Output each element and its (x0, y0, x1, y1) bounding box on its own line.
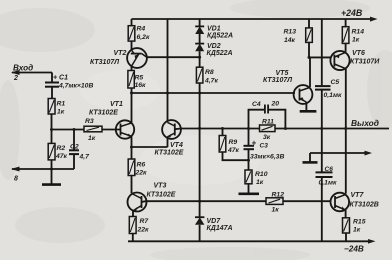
wire input down to C1 (51, 73, 53, 82)
wire VD1 to VD2 (199, 34, 201, 44)
wire y201 bus right of R12 to VT7 base (283, 200, 331, 202)
bottom rail arrowhead (368, 239, 376, 244)
resistor R9 (219, 136, 226, 153)
svg-text:R12: R12 (272, 192, 285, 199)
wire VT6 collector down to VT7 collector (345, 69, 347, 194)
node junction at 131,93 (130, 92, 133, 95)
wire gnd stem lower output (309, 153, 311, 162)
svg-text:47к: 47к (55, 153, 68, 160)
resistor R12 (horizontal, in series) (266, 198, 283, 205)
svg-text:КД522А: КД522А (207, 33, 233, 40)
wire VT4 emitter down (167, 137, 169, 147)
node junction at 199.6,93 (198, 92, 201, 95)
svg-text:С3: С3 (260, 143, 269, 150)
node junction R9/C3 (247, 159, 250, 162)
resistor R7 (129, 217, 136, 234)
svg-text:VD2: VD2 (207, 43, 221, 50)
wire C5 column from rail (321, 19, 323, 85)
wire node to R3 (52, 129, 85, 131)
resistor R14 (342, 27, 349, 44)
node junction base VT2 at diode column (198, 56, 201, 59)
svg-text:R6: R6 (137, 162, 146, 169)
wire VT1 collector up (131, 93, 133, 123)
svg-text:VT3: VT3 (154, 183, 167, 190)
svg-text:VT4: VT4 (170, 142, 183, 149)
svg-text:4,7к: 4,7к (204, 78, 218, 85)
wire R4 to VT2 (131, 41, 133, 50)
node junction x199.6/y201.2 (198, 200, 201, 203)
svg-text:КД522А: КД522А (207, 50, 233, 57)
svg-text:R10: R10 (255, 171, 268, 178)
transistor VT2 (PNP KT3107L) (127, 48, 147, 68)
svg-text:14к: 14к (284, 37, 296, 44)
node junction R13/VT5 collector (308, 56, 311, 59)
diode VD1 (KD522A) (195, 25, 204, 27)
node junction R9 at bus (221, 127, 224, 130)
svg-text:16к: 16к (135, 82, 147, 89)
resistor R1 (48, 99, 55, 115)
capacitor C2 (69, 149, 79, 151)
svg-text:КТ3107Л: КТ3107Л (90, 59, 119, 66)
svg-text:33мк×6,3В: 33мк×6,3В (250, 154, 284, 161)
wire C1 to R1 (51, 88, 53, 99)
capacitor C4 (264, 105, 266, 114)
ground bar VT5 (300, 110, 317, 113)
capacitor C5 (315, 85, 331, 87)
transistor VT1 (NPN KT3102E) (116, 120, 134, 138)
resistor R8 (196, 67, 203, 83)
wire VT3 base to right bus (142, 200, 147, 203)
svg-text:R15: R15 (353, 219, 366, 226)
wire R14 to VT6 emitter (345, 43, 347, 51)
node junction gnd stem (50, 168, 53, 171)
wire emitter bus VT1-VT4 (132, 146, 168, 148)
wire R10 to its ground (248, 184, 250, 193)
resistor R5 (128, 71, 134, 89)
svg-text:R8: R8 (205, 69, 214, 76)
svg-text:0,1мк: 0,1мк (324, 92, 342, 99)
wire output lower arrow line (310, 152, 366, 154)
svg-text:3к: 3к (263, 134, 271, 141)
wire gnd line (node 8) (12, 168, 74, 170)
transistor VT4 (NPN KT3102E) (162, 120, 181, 139)
svg-text:КТ3102Е: КТ3102Е (89, 110, 118, 117)
wire rail to R4 (131, 19, 133, 26)
svg-text:VD1: VD1 (207, 26, 221, 33)
svg-text:1к: 1к (272, 207, 280, 214)
node junction x199.6/y128.4 (198, 127, 201, 130)
svg-text:КТ3102Е: КТ3102Е (147, 192, 176, 199)
svg-text:R1: R1 (57, 101, 66, 108)
svg-text:1к: 1к (88, 135, 96, 142)
capacitor C6 (316, 171, 333, 173)
svg-text:R9: R9 (229, 139, 238, 146)
wire C5 to output bus (321, 90, 323, 128)
ground bar left (42, 183, 61, 186)
node junction C2 branch (73, 128, 76, 131)
svg-text:VT5: VT5 (276, 70, 289, 77)
wire R1 to node (51, 114, 53, 130)
node junction R1/R2 (50, 128, 53, 131)
svg-text:R7: R7 (140, 218, 150, 225)
wire R6 to VT3 collector (131, 176, 133, 194)
capacitor C1 (polarized) (45, 82, 59, 84)
resistor R2 (48, 143, 55, 160)
wire VT7 emitter to R15 (345, 210, 347, 218)
capacitor C3 (polarized 33mk) (248, 129, 250, 146)
node junction C5 column at bus (320, 127, 323, 130)
wire output bus y128.4 left part (175, 128, 260, 131)
svg-text:1к: 1к (353, 227, 361, 234)
wire R3 to VT1 base (102, 129, 121, 131)
wire R15 to bottom rail (345, 233, 347, 241)
svg-text:С4: С4 (252, 101, 261, 108)
svg-text:R14: R14 (352, 29, 365, 36)
svg-text:КД147А: КД147А (207, 225, 233, 232)
wire VT3 base bus y201 left of R12 (147, 200, 266, 202)
node junction emitters/R6 (130, 146, 133, 149)
wire node down to R2 (51, 130, 53, 144)
wire bottom -24V rail (128, 240, 370, 242)
svg-text:КТ3102Е: КТ3102Е (155, 150, 184, 157)
resistor R13 (306, 28, 313, 43)
resistor R15 (343, 218, 350, 233)
svg-text:22к: 22к (137, 227, 150, 234)
svg-text:VT7: VT7 (351, 192, 365, 199)
svg-text:1к: 1к (256, 179, 264, 186)
node junction at 167.5,93 (166, 92, 169, 95)
wire C4 branch right-down (268, 110, 285, 129)
node junction C4 rejoin (284, 127, 287, 130)
transistor VT6 (PNP KT3107I) (330, 51, 349, 70)
wire R13 stem from rail (308, 19, 310, 28)
diode VD2 (KD522A) (195, 43, 204, 45)
svg-text:4,7мк×10В: 4,7мк×10В (58, 83, 93, 90)
svg-text:20: 20 (271, 101, 280, 108)
node 8 arrowhead (11, 167, 20, 172)
transistor VT3 (NPN KT3102E) (128, 193, 147, 212)
resistor R10 (245, 170, 252, 184)
svg-text:8: 8 (14, 176, 18, 183)
svg-text:0,1мк: 0,1мк (319, 180, 337, 187)
svg-text:R3: R3 (85, 118, 94, 125)
wire VT1 emitter down (131, 136, 133, 147)
wire node to R6 (131, 147, 133, 159)
wire input horizontal (node 2) (12, 72, 52, 74)
svg-text:С2: С2 (70, 144, 79, 151)
ground bar R10 (239, 193, 260, 196)
wire VT2 emitter down to R5 (131, 66, 133, 71)
wire R8 down through junctions to VD7 (199, 83, 201, 217)
ground bar lower output (303, 161, 318, 164)
wire R2 to gnd line (51, 160, 53, 169)
wire VT5 collector up (309, 57, 311, 87)
resistor R4 (128, 26, 135, 41)
svg-text:КТ3107И: КТ3107И (350, 59, 380, 66)
svg-text:2: 2 (13, 75, 18, 82)
diode VD7 (KD147A) (195, 216, 204, 218)
svg-text:−24В: −24В (344, 245, 364, 254)
wire top +24V rail (132, 18, 373, 20)
wire VT2 base to VD2/R8 column (147, 56, 200, 58)
svg-text:47к: 47к (227, 147, 240, 154)
resistor R3 (horizontal) (84, 126, 102, 132)
wire R9 stem from bus (222, 129, 224, 136)
wire R9 to C3 column (223, 152, 249, 160)
svg-text:R13: R13 (284, 29, 297, 36)
resistor R11 (horizontal, in series) (260, 125, 276, 132)
svg-text:1к: 1к (57, 109, 65, 116)
wire VD1 column: rail to VD1 (199, 19, 201, 26)
node 2 input arrowhead (11, 70, 20, 75)
svg-text:КТ3107Л: КТ3107Л (263, 77, 292, 84)
wire C6 column from bus (321, 129, 323, 172)
wire x167.5 vertical rail to VT4 collector (167, 19, 169, 122)
svg-text:С5: С5 (331, 79, 340, 86)
wire R14 stem from rail (345, 19, 347, 27)
wire C3 to R10 (248, 150, 250, 170)
node junction C4/C3 at bus (247, 127, 250, 130)
wire C4 branch up-left (249, 110, 265, 129)
wire output bus y128.4 right part (275, 128, 389, 130)
svg-text:Вход: Вход (13, 64, 33, 73)
wire gnd stem (51, 169, 53, 184)
svg-text:1к: 1к (352, 37, 360, 44)
svg-text:22к: 22к (135, 170, 148, 177)
svg-text:4,7: 4,7 (79, 154, 91, 161)
svg-text:+ С1: + С1 (53, 75, 68, 82)
svg-text:R11: R11 (262, 119, 274, 126)
svg-text:R4: R4 (137, 26, 146, 33)
svg-text:+: + (252, 139, 257, 148)
arrowhead output lower (365, 151, 373, 156)
wire R5 to y93 (131, 88, 133, 93)
wire VD2 to R8 (199, 51, 201, 67)
wire C2 to gnd line (73, 155, 75, 169)
wire C6 to bottom rail (321, 178, 323, 242)
svg-text:VT2: VT2 (114, 50, 127, 57)
wire R13 to VT6 base node (308, 42, 310, 57)
svg-text:С6: С6 (325, 166, 334, 173)
wire VD7 to bottom rail (199, 225, 201, 242)
svg-text:6,2к: 6,2к (137, 34, 150, 41)
wire VT3 emitter to R7 (132, 211, 134, 217)
transistor VT5 (PNP KT3107L) (294, 85, 313, 104)
svg-text:VD7: VD7 (207, 218, 222, 225)
wire +24V rail right arrowhead (370, 17, 378, 22)
wire R7 to bottom rail (132, 234, 134, 242)
transistor VT7 (NPN KT3102V) (331, 193, 350, 212)
wire node to C2 branch (73, 130, 75, 150)
svg-text:R5: R5 (135, 75, 144, 82)
svg-text:Выход: Выход (351, 118, 379, 128)
svg-text:R2: R2 (57, 145, 66, 152)
wire VT6 base bus (309, 56, 331, 58)
svg-text:VT1: VT1 (110, 101, 123, 108)
svg-text:VT6: VT6 (352, 50, 365, 57)
node junction collectors at output bus (344, 127, 347, 130)
wire VT5 emitter to ground (305, 102, 307, 111)
svg-text:КТ3102В: КТ3102В (350, 202, 379, 209)
svg-text:+24В: +24В (341, 8, 363, 18)
wire y93 bus (R5/R8/VT5 base) (132, 92, 296, 94)
resistor R6 (128, 159, 135, 176)
